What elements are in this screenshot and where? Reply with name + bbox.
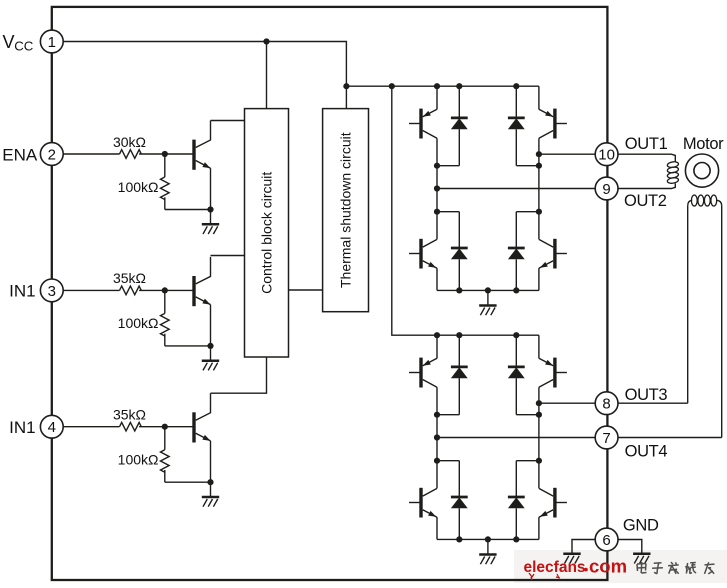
- svg-text:35kΩ: 35kΩ: [113, 407, 146, 423]
- svg-text:35kΩ: 35kΩ: [113, 270, 146, 286]
- wire VCC bus from pin 1: [63, 42, 346, 109]
- ground G2: [202, 346, 219, 371]
- svg-text:IN1: IN1: [9, 282, 35, 301]
- resistor R5 35kΩ: [113, 407, 146, 432]
- inductor motor winding W1: [667, 161, 679, 184]
- wire R4 to emitter node: [165, 345, 211, 347]
- node H1 mid junctions: [434, 185, 542, 214]
- label Motor: [683, 135, 724, 153]
- pin 7 OUT4: [595, 426, 618, 449]
- svg-text:30kΩ: 30kΩ: [113, 134, 146, 150]
- transistor Q2: [194, 257, 211, 346]
- label ENA: [2, 145, 38, 164]
- watermark background: [514, 550, 727, 583]
- node base of Q2: [162, 287, 168, 293]
- wire motor winding-2 right lead: [721, 206, 723, 438]
- node H1 rail junctions: [434, 83, 520, 89]
- label OUT2: [624, 192, 667, 210]
- resistor R3 35kΩ: [113, 270, 146, 295]
- svg-text:Control block circuit: Control block circuit: [259, 172, 275, 294]
- wire OUT3 to pin 8 and motor: [539, 402, 688, 404]
- svg-text:7: 7: [602, 430, 610, 447]
- node H2 bottom junctions: [456, 536, 519, 542]
- transistor H1B (top-right): [539, 86, 567, 166]
- node H1 output junctions: [434, 151, 542, 169]
- wire GND right: [618, 540, 642, 554]
- pin 10 OUT1: [595, 143, 618, 166]
- node H2 output junctions: [434, 400, 542, 418]
- wire R5 to base node: [139, 426, 194, 428]
- svg-text:OUT1: OUT1: [625, 135, 668, 153]
- pin 2 ENA: [40, 143, 63, 166]
- svg-text:100kΩ: 100kΩ: [118, 315, 159, 331]
- svg-text:1: 1: [48, 34, 56, 51]
- node VCC branch junction: [389, 83, 395, 89]
- wire control to thermal: [289, 289, 323, 291]
- wire OUT2 to pin 9: [437, 184, 675, 189]
- motor M1 symbol: [685, 154, 718, 187]
- node H2 rail junctions: [434, 332, 520, 338]
- svg-text:9: 9: [602, 181, 610, 198]
- wire H2 bottom rail: [437, 538, 539, 540]
- pin 1 VCC: [40, 30, 63, 53]
- svg-text:6: 6: [602, 532, 610, 549]
- wire H2 right column: [538, 415, 540, 489]
- diode H2D1 (top-left): [437, 335, 468, 415]
- svg-text:V: V: [3, 32, 15, 52]
- wire R1 to base node: [139, 153, 194, 155]
- svg-text:CC: CC: [14, 39, 34, 54]
- pin 8 OUT3: [595, 392, 618, 415]
- wire VCC drop to lower H-bridge: [392, 86, 539, 335]
- svg-text:100kΩ: 100kΩ: [118, 179, 159, 195]
- wire VCC to control block: [266, 42, 268, 109]
- transistor Q1: [194, 121, 211, 210]
- transistor H2C (bottom-left): [409, 488, 437, 540]
- wire collector of Q2: [211, 255, 245, 257]
- node VCC-thermal junction: [343, 83, 349, 89]
- ground GND-right symbol: [633, 554, 650, 564]
- wire collector of Q1: [211, 120, 245, 122]
- svg-text:ENA: ENA: [2, 145, 38, 164]
- svg-text:10: 10: [598, 147, 615, 164]
- label OUT3: [625, 386, 668, 404]
- wire R2 to emitter node: [165, 209, 211, 211]
- ground GND-left symbol: [563, 554, 580, 564]
- diode H1D1 (top-left): [437, 86, 468, 166]
- svg-text:OUT2: OUT2: [624, 192, 667, 210]
- IC package boundary: [52, 7, 608, 580]
- ground H1 emitter ground: [479, 290, 496, 315]
- node emitter junction Q2: [207, 343, 213, 349]
- transistor H1C (bottom-left): [409, 239, 437, 291]
- wire OUT4 to pin 7 and motor: [437, 437, 722, 439]
- label IN1 (pin4): [9, 418, 35, 437]
- svg-text:elecfans: elecfans: [524, 559, 586, 576]
- wire H1 right column: [538, 166, 540, 240]
- svg-text:IN1: IN1: [9, 418, 35, 437]
- wire H1 bottom rail: [437, 289, 539, 291]
- diode H1D2 (top-right): [508, 86, 539, 166]
- transistor H2D (bottom-right): [539, 488, 567, 540]
- transistor H2A (top-left): [409, 335, 437, 415]
- wire input to resistor R5: [63, 426, 119, 428]
- node H1 bottom junctions: [456, 287, 519, 293]
- node VCC-control junction: [263, 38, 269, 44]
- svg-text:4: 4: [48, 419, 56, 436]
- transistor Q3: [194, 393, 211, 482]
- svg-text:Motor: Motor: [683, 135, 724, 153]
- wire H1 left column: [436, 166, 438, 240]
- diode H2D3 (bottom-left): [437, 461, 468, 540]
- diode H1D3 (bottom-left): [437, 212, 468, 291]
- resistor R2 100kΩ: [118, 154, 169, 210]
- control block U1: [245, 109, 289, 357]
- node base of Q3: [162, 424, 168, 430]
- inductor motor winding W2: [688, 195, 722, 206]
- node emitter junction Q3: [207, 479, 213, 485]
- wire collector of Q3: [211, 357, 267, 393]
- diode H2D4 (bottom-right): [508, 461, 539, 540]
- svg-text:Thermal shutdown circuit: Thermal shutdown circuit: [338, 132, 354, 288]
- resistor R1 30kΩ: [113, 134, 146, 159]
- wire GND left: [572, 540, 596, 554]
- pin 6 GND: [595, 528, 618, 551]
- ground H2 emitter ground: [479, 539, 496, 564]
- transistor H2B (top-right): [539, 335, 567, 415]
- pin 9 OUT2: [595, 177, 618, 200]
- transistor H1A (top-left): [409, 86, 437, 166]
- label OUT1: [625, 135, 668, 153]
- node base of Q1: [162, 151, 168, 157]
- ground G3: [202, 482, 219, 507]
- resistor R6 100kΩ: [118, 427, 169, 483]
- wire input to resistor R3: [63, 289, 119, 291]
- wire R6 to emitter node: [165, 481, 211, 483]
- wire R3 to base node: [139, 289, 194, 291]
- node emitter junction Q1: [207, 206, 213, 212]
- label VCC: [3, 32, 34, 53]
- watermark elecfans.com: [524, 555, 628, 580]
- transistor H1D (bottom-right): [539, 239, 567, 291]
- ground G1: [202, 210, 219, 235]
- node H2 mid junctions: [434, 434, 542, 463]
- wire input to resistor R1: [63, 153, 119, 155]
- label GND: [623, 517, 659, 535]
- wire OUT1 to pin 10 and motor: [539, 154, 675, 161]
- label IN1 (pin3): [9, 282, 35, 301]
- diode H2D2 (top-right): [508, 335, 539, 415]
- wire VCC rail to upper H-bridge: [346, 85, 539, 87]
- thermal shutdown block U2: [323, 109, 369, 312]
- label OUT4: [625, 443, 668, 461]
- svg-text:OUT4: OUT4: [625, 443, 668, 461]
- wire H2 left column: [436, 415, 438, 489]
- svg-text:GND: GND: [623, 517, 659, 535]
- resistor R4 100kΩ: [118, 290, 169, 346]
- pin 3 IN1: [40, 279, 63, 302]
- watermark chinese text: [637, 562, 715, 574]
- svg-text:com: com: [589, 555, 627, 576]
- svg-text:3: 3: [48, 283, 56, 300]
- wire motor winding-2 left lead: [687, 206, 689, 404]
- svg-text:OUT3: OUT3: [625, 386, 668, 404]
- svg-text:100kΩ: 100kΩ: [118, 452, 159, 468]
- diode H1D4 (bottom-right): [508, 212, 539, 291]
- svg-text:8: 8: [602, 396, 610, 413]
- svg-text:2: 2: [48, 146, 56, 163]
- pin 4 IN1: [40, 415, 63, 438]
